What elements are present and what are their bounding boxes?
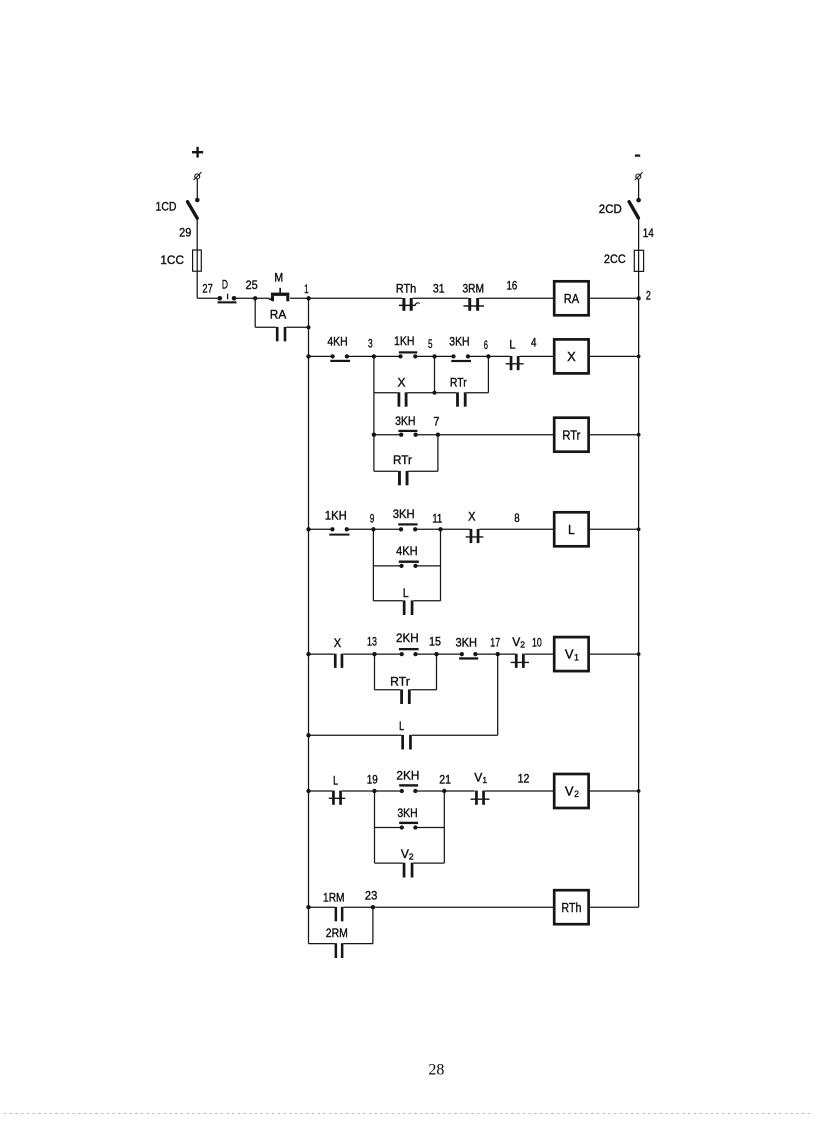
svg-text:2: 2 (646, 288, 651, 302)
svg-text:16: 16 (507, 279, 518, 293)
svg-text:L: L (568, 522, 575, 537)
svg-text:L: L (403, 586, 409, 600)
svg-text:X: X (567, 349, 576, 364)
svg-text:2RM: 2RM (326, 926, 348, 940)
svg-text:3KH: 3KH (393, 507, 415, 521)
svg-text:RTr: RTr (450, 376, 467, 390)
svg-text:12: 12 (518, 772, 530, 786)
svg-text:X: X (334, 636, 341, 650)
svg-text:1KH: 1KH (325, 509, 347, 523)
svg-text:6: 6 (484, 338, 488, 352)
svg-text:23: 23 (365, 889, 378, 903)
svg-text:25: 25 (245, 278, 258, 292)
svg-text:2KH: 2KH (396, 631, 419, 645)
svg-text:19: 19 (367, 772, 378, 786)
svg-text:RTh: RTh (561, 900, 581, 915)
svg-text:V: V (565, 784, 574, 799)
svg-text:1: 1 (304, 282, 309, 296)
svg-text:RTh: RTh (396, 282, 417, 296)
svg-text:3KH: 3KH (397, 806, 417, 820)
svg-text:L: L (509, 337, 516, 351)
svg-text:2CC: 2CC (604, 252, 626, 266)
svg-text:4KH: 4KH (327, 335, 347, 349)
svg-text:14: 14 (643, 226, 654, 240)
svg-text:2KH: 2KH (396, 769, 419, 783)
svg-text:17: 17 (490, 636, 500, 650)
svg-text:RA: RA (564, 291, 580, 306)
svg-text:D: D (222, 277, 228, 291)
svg-text:15: 15 (429, 635, 441, 649)
svg-text:M: M (274, 270, 283, 284)
svg-text:21: 21 (439, 773, 451, 787)
svg-text:RTr: RTr (562, 427, 581, 442)
svg-text:11: 11 (432, 512, 442, 526)
svg-text:3RM: 3RM (462, 282, 484, 296)
svg-text:27: 27 (202, 282, 213, 296)
svg-text:2: 2 (574, 789, 579, 799)
svg-text:28: 28 (428, 1061, 444, 1078)
svg-text:4: 4 (531, 336, 537, 350)
svg-text:3: 3 (368, 337, 373, 351)
svg-text:1CC: 1CC (160, 253, 184, 267)
svg-text:1RM: 1RM (323, 891, 345, 905)
svg-text:31: 31 (433, 281, 445, 295)
svg-text:1CD: 1CD (156, 199, 177, 213)
svg-text:1KH: 1KH (394, 334, 414, 348)
svg-text:1: 1 (574, 652, 579, 662)
svg-text:29: 29 (179, 225, 191, 239)
svg-text:3KH: 3KH (455, 636, 477, 650)
svg-text:8: 8 (514, 511, 520, 525)
svg-text:10: 10 (532, 636, 542, 650)
svg-text:9: 9 (370, 512, 375, 526)
svg-text:V: V (565, 647, 574, 662)
svg-text:RTr: RTr (393, 453, 412, 467)
svg-text:RA: RA (270, 308, 287, 322)
svg-text:X: X (468, 510, 475, 524)
svg-text:2CD: 2CD (599, 202, 622, 216)
svg-text:5: 5 (428, 337, 433, 351)
svg-text:RTr: RTr (390, 675, 410, 689)
svg-text:L: L (399, 719, 404, 733)
svg-text:X: X (398, 376, 406, 390)
svg-text:13: 13 (367, 635, 377, 649)
svg-text:7: 7 (433, 415, 439, 429)
svg-text:3KH: 3KH (449, 335, 469, 349)
svg-text:L: L (333, 774, 338, 788)
svg-text:3KH: 3KH (395, 414, 415, 428)
svg-text:4KH: 4KH (396, 544, 418, 558)
